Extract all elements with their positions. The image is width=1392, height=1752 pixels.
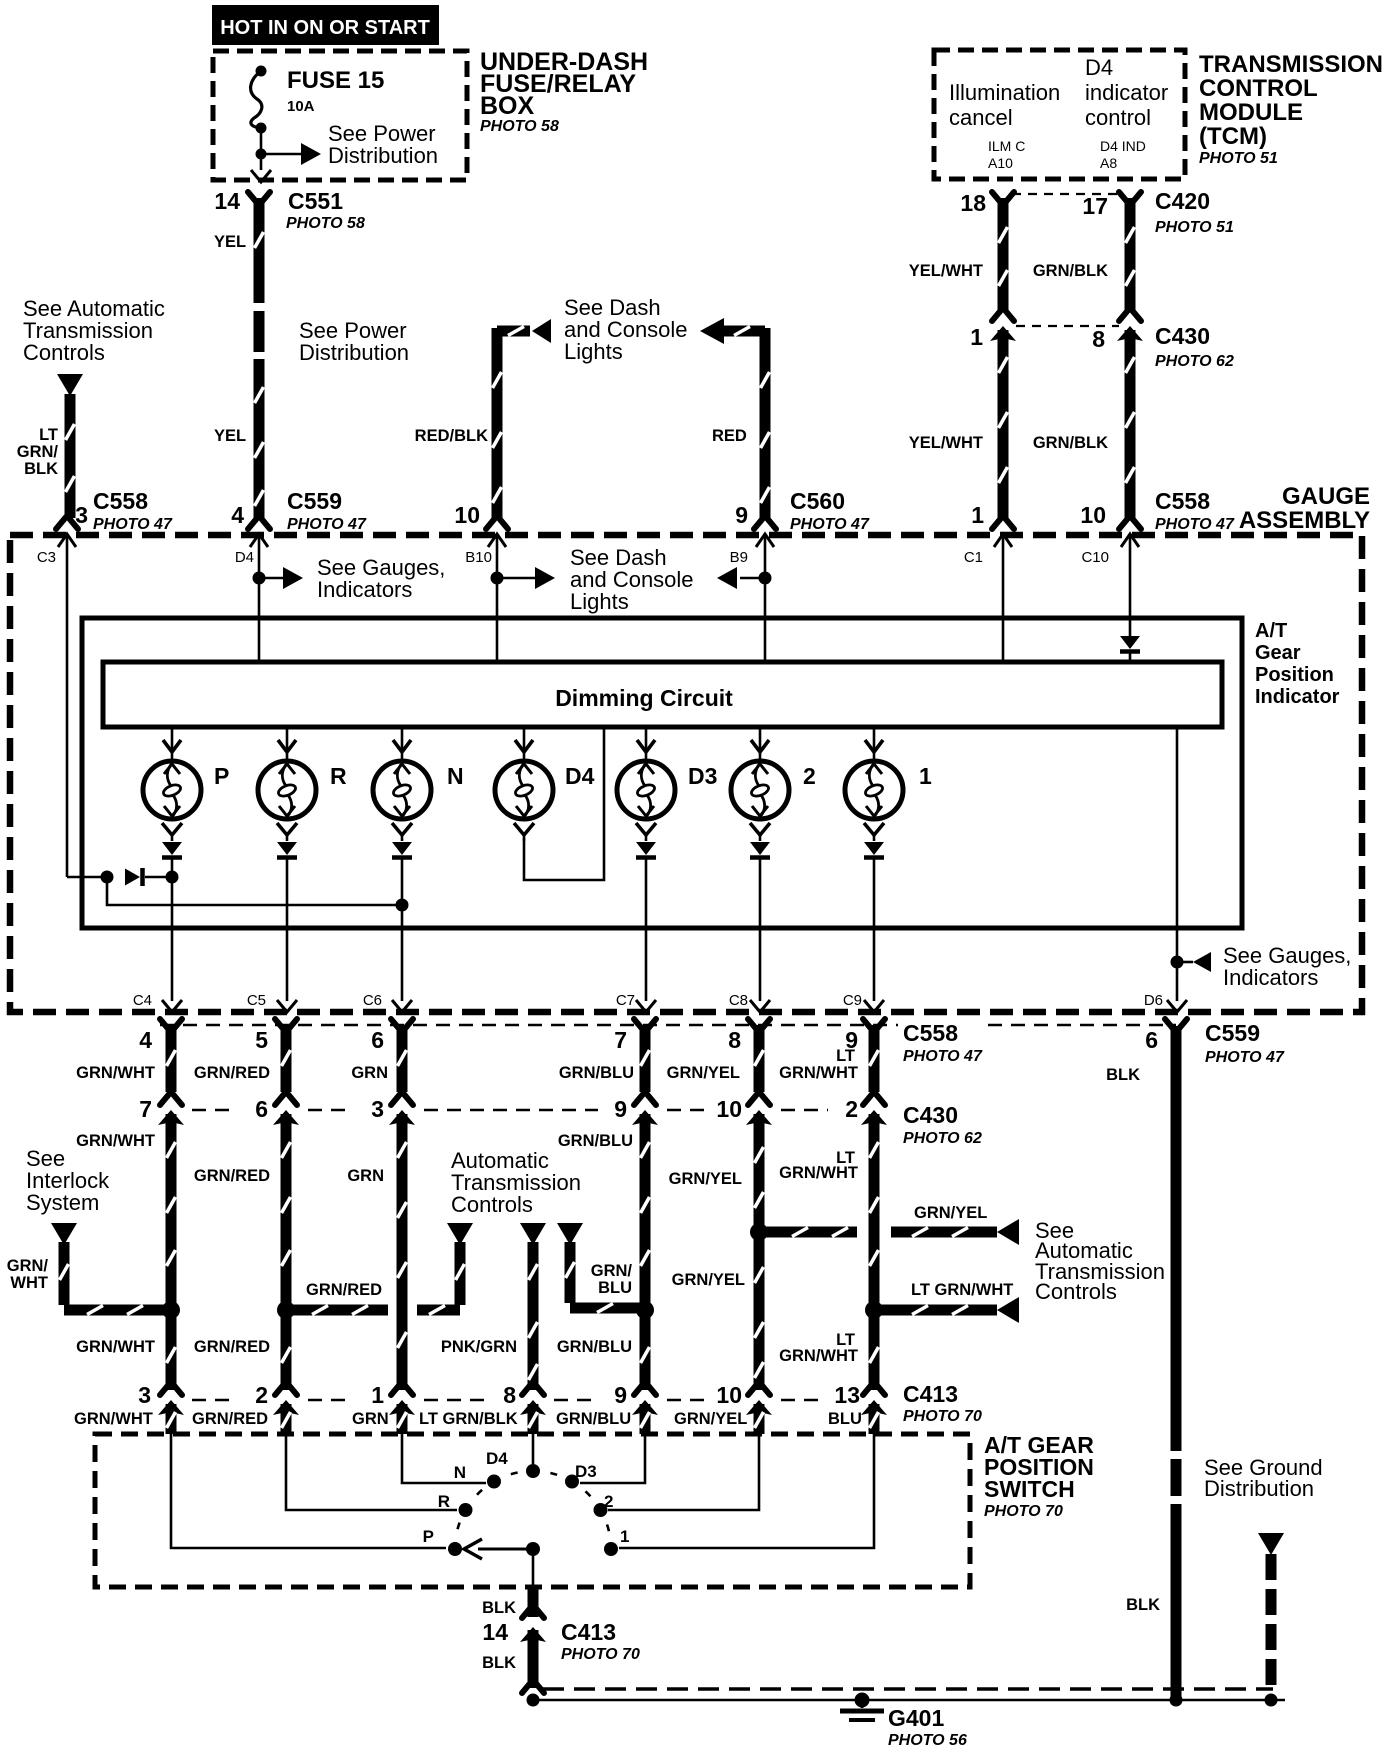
- svg-text:14: 14: [482, 1619, 508, 1645]
- wire: C1 entry down to dimming circuit: [1002, 534, 1005, 662]
- wire stub (ATC left): [455, 1242, 466, 1305]
- svg-text:WHT: WHT: [10, 1274, 48, 1292]
- gauge entry B10: connector flare+arrow: [486, 517, 496, 529]
- switch common node: [526, 1542, 540, 1556]
- svg-text:10A: 10A: [287, 98, 315, 115]
- svg-text:3: 3: [75, 502, 88, 528]
- wire GRN/BLU col (row2-row3): [640, 1114, 651, 1390]
- svg-text:PNK/GRN: PNK/GRN: [441, 1338, 517, 1356]
- connector C430 row pin 7: [160, 1093, 170, 1105]
- ground bus (dashed upper): [543, 1687, 1273, 1691]
- wire: B10 entry down to dimming circuit: [496, 534, 499, 662]
- wire GRN/RED col (row2-junction): [281, 1114, 292, 1305]
- arrow: see gauges indicators (right): [1193, 952, 1211, 972]
- wire segment row1-row2 at x=645: [640, 1025, 651, 1092]
- wire segment row1-row2 at x=286: [281, 1025, 292, 1092]
- wire GRN/YEL col (row2-row3): [754, 1114, 765, 1390]
- connector C558/C559 row pin 4 fork: [160, 1019, 170, 1031]
- svg-text:RED/BLK: RED/BLK: [415, 427, 488, 445]
- wire: switch pin 8 to D4 contact: [532, 1434, 535, 1464]
- svg-text:C430: C430: [1155, 323, 1210, 349]
- wire (dashed) to ground distribution: [1266, 1554, 1277, 1692]
- wire YEL/WHT (TCM 18 to C430 1): [998, 198, 1009, 312]
- svg-text:GRN: GRN: [351, 1064, 388, 1082]
- svg-text:BLK: BLK: [1126, 1596, 1160, 1614]
- connector C413 pin 2: [275, 1383, 285, 1395]
- wire YEL/WHT (C430 1 to gauge C1): [998, 330, 1009, 518]
- arrow: from automatic transmission controls: [57, 374, 83, 396]
- svg-text:C4: C4: [133, 992, 152, 1009]
- switch contact P: [448, 1542, 462, 1556]
- wire RED (to gauge B9): [760, 328, 771, 518]
- svg-text:MODULE: MODULE: [1199, 99, 1303, 126]
- svg-text:Controls: Controls: [1035, 1279, 1117, 1304]
- wire: bulb N output: [401, 858, 404, 1001]
- wire: branch to gauges indicators: [259, 577, 284, 580]
- svg-text:C430: C430: [903, 1102, 958, 1128]
- svg-text:D6: D6: [1144, 992, 1163, 1009]
- svg-text:8: 8: [1092, 326, 1105, 352]
- svg-text:C558: C558: [1155, 488, 1210, 514]
- svg-text:BOX: BOX: [480, 92, 535, 120]
- connector C420 pin 17 fork: [1119, 192, 1129, 204]
- indicator bulb 2: [759, 727, 762, 762]
- svg-text:4: 4: [231, 502, 244, 528]
- node: B10 branch: [491, 572, 504, 585]
- svg-text:GRN/: GRN/: [591, 1262, 633, 1280]
- svg-text:P: P: [423, 1527, 434, 1546]
- svg-text:control: control: [1085, 105, 1151, 130]
- connector C558/C559 row pin 8 fork: [748, 1019, 758, 1031]
- svg-text:PHOTO 70: PHOTO 70: [984, 1503, 1063, 1520]
- svg-text:Indicators: Indicators: [317, 577, 412, 602]
- svg-text:14: 14: [214, 188, 240, 214]
- connector C430 pin 1: [992, 309, 1002, 321]
- wire: C10 entry down: [1129, 534, 1132, 636]
- arrow: exit under bulb D3: [636, 1000, 656, 1012]
- wire BLK (switch to C413 pin 14): [528, 1585, 539, 1617]
- svg-text:2: 2: [845, 1096, 858, 1122]
- connector C413 dashed tie (row3): [192, 1399, 238, 1402]
- connector C558/C559 row pin 6 fork: [391, 1019, 401, 1031]
- svg-text:C420: C420: [1155, 188, 1210, 214]
- svg-text:C560: C560: [790, 488, 845, 514]
- svg-text:GRN/RED: GRN/RED: [194, 1338, 270, 1356]
- dimming circuit box: [103, 662, 1222, 727]
- node: fuse top: [256, 66, 267, 77]
- wire row3 stem at x=402: [397, 1404, 408, 1434]
- arrow: exit under bulb 2: [750, 1000, 770, 1012]
- wire: D4 bulb return to dimming circuit: [524, 727, 604, 880]
- svg-text:LT: LT: [39, 426, 58, 444]
- gauge entry D4: connector flare+arrow: [248, 517, 258, 529]
- wire: switch pin 9 to D3 contact: [580, 1434, 645, 1483]
- switch wiper (pointing at P): [478, 1548, 533, 1551]
- wire GRN/BLK (TCM 17 to C430 8): [1125, 198, 1136, 312]
- diode under bulb D3: [636, 842, 656, 855]
- connector C430 row pin 6: [275, 1093, 285, 1105]
- svg-text:GRN/BLU: GRN/BLU: [558, 1132, 633, 1150]
- wire: B9 entry down to dimming circuit: [764, 534, 767, 662]
- svg-text:R: R: [330, 763, 347, 789]
- svg-text:10: 10: [716, 1096, 742, 1122]
- svg-text:D4: D4: [1085, 55, 1113, 80]
- wire: see power distribution stub: [261, 153, 303, 156]
- gauge entry C1: connector flare+arrow: [992, 517, 1002, 529]
- arrow: from interlock system: [51, 1223, 77, 1245]
- wire: bulb R output: [286, 858, 289, 1001]
- arrow: red/blk to dash lights: [532, 319, 551, 343]
- wire row3 stem at x=286: [281, 1404, 292, 1434]
- node: D6 branch: [1171, 956, 1184, 969]
- wire row3 stem at x=171: [166, 1404, 177, 1434]
- wire BLK (C559-6 to ground bus): [1171, 1026, 1182, 1697]
- connector C413 pin 3: [160, 1383, 170, 1395]
- wire: switch pin 1 to N contact: [402, 1434, 486, 1483]
- svg-text:C6: C6: [363, 992, 382, 1009]
- svg-text:C9: C9: [843, 992, 862, 1009]
- junction on GRN/RED col: [277, 1301, 295, 1319]
- svg-text:C558: C558: [903, 1020, 958, 1046]
- diode under bulb N: [392, 842, 412, 855]
- wire: fuse to branch: [260, 128, 263, 170]
- A/T gear position switch box (dashed): [95, 1434, 970, 1587]
- svg-text:Distribution: Distribution: [328, 143, 438, 168]
- svg-text:A8: A8: [1100, 155, 1117, 171]
- svg-text:PHOTO 47: PHOTO 47: [903, 1048, 983, 1065]
- arrow: to power distribution: [301, 143, 321, 165]
- svg-text:2: 2: [255, 1382, 268, 1408]
- wire: node A down and right to N column: [107, 877, 402, 905]
- node: B9 branch: [759, 572, 772, 585]
- svg-text:LT: LT: [836, 1047, 855, 1065]
- wire PNK/GRN (ATC to switch pin 8): [528, 1242, 539, 1390]
- wire row3 stem at x=533: [528, 1404, 539, 1434]
- svg-text:HOT IN ON OR START: HOT IN ON OR START: [220, 17, 430, 39]
- svg-text:GRN/WHT: GRN/WHT: [76, 1132, 155, 1150]
- arrow: wire exits fuse box: [251, 170, 271, 182]
- svg-text:9: 9: [735, 502, 748, 528]
- svg-text:D3: D3: [575, 1462, 597, 1481]
- wire segment row1-row2 at x=171: [166, 1025, 177, 1092]
- connector C430 row pin 10: [748, 1093, 758, 1105]
- wire stub (ATC right to GRN/BLU col): [565, 1242, 576, 1303]
- svg-text:D4: D4: [486, 1449, 508, 1468]
- connector C413 pin 1: [391, 1383, 401, 1395]
- arrow: exit under bulb P: [162, 1000, 182, 1012]
- wire GRN col (row2-row3): [397, 1114, 408, 1390]
- junction: interlock to GRN/WHT col: [162, 1301, 180, 1319]
- svg-text:A10: A10: [988, 155, 1013, 171]
- indicator bulb P: [171, 727, 174, 762]
- svg-text:YEL: YEL: [214, 233, 246, 251]
- svg-text:2: 2: [604, 1492, 613, 1511]
- svg-text:GRN/WHT: GRN/WHT: [779, 1164, 858, 1182]
- gauge entry C10: connector flare+arrow: [1119, 517, 1129, 529]
- svg-text:Distribution: Distribution: [299, 340, 409, 365]
- svg-text:BLK: BLK: [1106, 1066, 1140, 1084]
- svg-text:3: 3: [138, 1382, 151, 1408]
- A/T gear position indicator box: [82, 618, 1242, 928]
- svg-text:18: 18: [960, 190, 986, 216]
- node on P output: [166, 871, 179, 884]
- svg-text:R: R: [438, 1492, 450, 1511]
- svg-text:C413: C413: [903, 1381, 958, 1407]
- svg-text:GRN/BLU: GRN/BLU: [559, 1064, 634, 1082]
- node: ground distribution to bus: [1265, 1694, 1278, 1707]
- junction on GRN/BLU col: [636, 1301, 654, 1319]
- svg-text:1: 1: [919, 763, 932, 789]
- wire RED/BLK (to gauge B10): [492, 328, 503, 518]
- node A (left of diode): [101, 871, 114, 884]
- svg-text:GRN/YEL: GRN/YEL: [667, 1064, 740, 1082]
- svg-text:10: 10: [1080, 502, 1106, 528]
- svg-text:1: 1: [371, 1382, 384, 1408]
- svg-text:3: 3: [371, 1096, 384, 1122]
- wire: bulb P output: [171, 858, 174, 1001]
- svg-text:GRN/WHT: GRN/WHT: [779, 1064, 858, 1082]
- svg-text:ILM C: ILM C: [988, 138, 1025, 154]
- svg-text:17: 17: [1082, 193, 1108, 219]
- gauge entry C3: connector flare+arrow: [56, 517, 66, 529]
- svg-text:4: 4: [139, 1027, 152, 1053]
- svg-text:(TCM): (TCM): [1199, 123, 1267, 150]
- svg-text:indicator: indicator: [1085, 80, 1168, 105]
- wire row3 stem at x=874: [869, 1404, 880, 1434]
- wire: diode to P column: [145, 876, 166, 879]
- node: power-distribution branch: [256, 149, 267, 160]
- wire: dimming circuit to D6 exit: [1176, 727, 1179, 1001]
- svg-text:6: 6: [1145, 1027, 1158, 1053]
- connector C430 row pin 3: [391, 1093, 401, 1105]
- wire GRN/WHT col (row2-junction): [166, 1114, 177, 1305]
- wire: switch pin 2 to R contact: [286, 1434, 457, 1510]
- svg-text:PHOTO 62: PHOTO 62: [903, 1130, 982, 1147]
- svg-text:GRN/YEL: GRN/YEL: [672, 1271, 745, 1289]
- svg-text:PHOTO 47: PHOTO 47: [287, 516, 367, 533]
- svg-text:LT GRN/BLK: LT GRN/BLK: [419, 1410, 518, 1428]
- connector C558/C559 row pin 7 fork: [634, 1019, 644, 1031]
- svg-text:GRN/: GRN/: [17, 443, 59, 461]
- svg-text:Controls: Controls: [23, 340, 105, 365]
- svg-text:B9: B9: [730, 549, 748, 566]
- svg-text:Illumination: Illumination: [949, 80, 1060, 105]
- wire segment row1-row2 at x=874: [869, 1025, 880, 1092]
- svg-text:6: 6: [371, 1027, 384, 1053]
- svg-text:5: 5: [255, 1027, 268, 1053]
- svg-text:LT GRN/WHT: LT GRN/WHT: [911, 1281, 1013, 1299]
- svg-text:GRN/BLK: GRN/BLK: [1033, 434, 1108, 452]
- gauge assembly box (dashed): [10, 535, 1362, 1012]
- svg-text:YEL/WHT: YEL/WHT: [909, 262, 983, 280]
- svg-text:PHOTO 47: PHOTO 47: [790, 516, 870, 533]
- switch contact 2: [594, 1503, 608, 1517]
- switch contact N: [487, 1475, 501, 1489]
- svg-text:C558: C558: [93, 488, 148, 514]
- connector C430 pin 8: [1119, 309, 1129, 321]
- svg-text:GRN/BLK: GRN/BLK: [1033, 262, 1108, 280]
- wire GRN/WHT (interlock feed): [59, 1242, 70, 1305]
- node: fuse bottom: [256, 123, 267, 134]
- arrow: exit under bulb N: [392, 1000, 412, 1012]
- wire: switch pin 13 to 1 contact: [619, 1434, 874, 1548]
- svg-text:BLK: BLK: [482, 1599, 516, 1617]
- svg-text:8: 8: [503, 1382, 516, 1408]
- arrow: to dash and console lights: [535, 567, 555, 589]
- svg-text:BLK: BLK: [24, 460, 58, 478]
- wire LT GRN/BLK (to gauge C558 pin 3): [65, 394, 76, 518]
- svg-text:D4 IND: D4 IND: [1100, 138, 1146, 154]
- svg-text:B10: B10: [465, 549, 492, 566]
- switch contact R: [459, 1503, 473, 1517]
- svg-text:Controls: Controls: [451, 1192, 533, 1217]
- svg-text:G401: G401: [888, 1705, 944, 1731]
- svg-text:Distribution: Distribution: [1204, 1476, 1314, 1501]
- node: BLK to ground bus: [527, 1694, 540, 1707]
- svg-text:GAUGE: GAUGE: [1282, 483, 1370, 510]
- svg-text:Indicator: Indicator: [1255, 686, 1340, 708]
- ground G401 symbol: [855, 1693, 870, 1708]
- svg-text:PHOTO 70: PHOTO 70: [561, 1646, 640, 1663]
- svg-text:PHOTO 47: PHOTO 47: [93, 516, 173, 533]
- wire segment row1-row2 at x=402: [397, 1025, 408, 1092]
- svg-text:PHOTO 51: PHOTO 51: [1199, 150, 1278, 167]
- wire: C10 diode to dimming circuit: [1129, 652, 1132, 662]
- arrow: D6 exit: [1167, 1000, 1187, 1012]
- wire: B10 branch stub: [497, 577, 536, 580]
- svg-text:C559: C559: [1205, 1020, 1260, 1046]
- svg-text:1: 1: [970, 324, 983, 350]
- diode under bulb 1: [864, 842, 884, 855]
- svg-text:PHOTO 58: PHOTO 58: [286, 215, 365, 232]
- svg-text:PHOTO 62: PHOTO 62: [1155, 353, 1234, 370]
- transmission control module box (dashed): [934, 50, 1185, 179]
- svg-text:RED: RED: [712, 427, 747, 445]
- svg-text:CONTROL: CONTROL: [1199, 75, 1318, 102]
- svg-text:7: 7: [614, 1027, 627, 1053]
- diode (P bulb hold): [125, 869, 140, 886]
- gauge entry B9: connector flare+arrow: [754, 517, 764, 529]
- node: right BLK to ground bus: [1170, 1694, 1183, 1707]
- switch contact arc (dashed): [455, 1471, 611, 1549]
- wire row3 stem at x=645: [640, 1404, 651, 1434]
- svg-text:SWITCH: SWITCH: [984, 1476, 1075, 1502]
- arrow: from dash and console lights: [717, 567, 737, 589]
- wire: D6 branch stub: [1177, 961, 1193, 964]
- switch contact D3: [565, 1475, 579, 1489]
- svg-text:GRN/RED: GRN/RED: [194, 1167, 270, 1185]
- svg-text:C559: C559: [287, 488, 342, 514]
- switch contact D4: [526, 1464, 540, 1478]
- arrow: red to dash lights: [700, 318, 724, 344]
- arrow: ATC into PNK/GRN wire: [520, 1223, 546, 1245]
- svg-text:GRN: GRN: [347, 1167, 384, 1185]
- wire GRN/YEL stub (crossing to ATC): [759, 1227, 857, 1238]
- svg-text:GRN/WHT: GRN/WHT: [76, 1338, 155, 1356]
- connector C430 dashed tie (row2): [192, 1109, 238, 1112]
- wire: C3 to diode node: [67, 876, 101, 879]
- wire row3 stem at x=759: [754, 1404, 765, 1434]
- connector C420 pin 18 fork: [992, 192, 1002, 204]
- svg-text:System: System: [26, 1190, 99, 1215]
- svg-text:P: P: [214, 763, 229, 789]
- svg-text:D3: D3: [688, 763, 717, 789]
- wire: D4 entry down to dimming circuit: [258, 534, 261, 662]
- svg-text:9: 9: [614, 1382, 627, 1408]
- wire: bulb 1 output: [873, 858, 876, 1001]
- svg-text:GRN/BLU: GRN/BLU: [557, 1338, 632, 1356]
- connector C558/C559 row pin 9 fork: [863, 1019, 873, 1031]
- svg-text:10: 10: [454, 502, 480, 528]
- svg-text:C10: C10: [1081, 549, 1109, 566]
- connector C558/C559 row pin 5 fork: [275, 1019, 285, 1031]
- svg-text:GRN/YEL: GRN/YEL: [914, 1204, 987, 1222]
- arrow: see gauges indicators: [283, 567, 303, 589]
- diode under bulb 2: [750, 842, 770, 855]
- svg-text:GRN/RED: GRN/RED: [306, 1281, 382, 1299]
- svg-text:10: 10: [716, 1382, 742, 1408]
- svg-text:YEL: YEL: [214, 427, 246, 445]
- node: D4 branch: [253, 572, 266, 585]
- svg-text:FUSE 15: FUSE 15: [287, 67, 384, 94]
- connector C430 row pin 9: [634, 1093, 644, 1105]
- node on N output: [396, 899, 409, 912]
- svg-text:C1: C1: [964, 549, 983, 566]
- arrow: to ground distribution: [1258, 1533, 1284, 1555]
- junction on GRN/YEL col: [750, 1223, 768, 1241]
- connector C413 pin 13: [863, 1383, 873, 1395]
- svg-text:C3: C3: [37, 549, 56, 566]
- svg-text:BLK: BLK: [482, 1654, 516, 1672]
- svg-text:7: 7: [139, 1096, 152, 1122]
- svg-text:GRN/YEL: GRN/YEL: [669, 1170, 742, 1188]
- svg-text:9: 9: [614, 1096, 627, 1122]
- svg-text:BLU: BLU: [828, 1410, 862, 1428]
- wire: switch common down: [532, 1549, 535, 1587]
- wire: switch pin 3 to P contact: [171, 1434, 446, 1548]
- wire GRN/RED stub (to automatic transmission controls): [286, 1305, 388, 1316]
- svg-text:2: 2: [803, 763, 816, 789]
- indicator bulb R: [286, 727, 289, 762]
- svg-text:ASSEMBLY: ASSEMBLY: [1239, 507, 1370, 534]
- connector C558/C559 row pin 6 fork: [1165, 1019, 1175, 1031]
- svg-text:A/T: A/T: [1255, 620, 1287, 642]
- svg-text:C7: C7: [616, 992, 635, 1009]
- wire: C3 entry down: [66, 534, 69, 877]
- svg-text:D4: D4: [235, 549, 254, 566]
- svg-text:TRANSMISSION: TRANSMISSION: [1199, 51, 1383, 78]
- connector C413 pin 10: [748, 1383, 758, 1395]
- svg-text:PHOTO 58: PHOTO 58: [480, 118, 559, 135]
- wire: bulb 2 output: [759, 858, 762, 1001]
- svg-text:8: 8: [728, 1027, 741, 1053]
- arrow: exit under bulb 1: [864, 1000, 884, 1012]
- svg-text:Lights: Lights: [564, 339, 623, 364]
- connector C551 pin 14 fork: [248, 192, 258, 204]
- wire: switch pin 10 to 2 contact: [608, 1434, 759, 1510]
- connector row C558 dashed tie: [160, 1024, 898, 1027]
- arrow: GRN/YEL to ATC: [997, 1219, 1019, 1245]
- wire GRN/RED col (junction-row3): [281, 1310, 292, 1390]
- junction on LT GRN/WHT col: [865, 1301, 883, 1319]
- svg-text:N: N: [447, 763, 464, 789]
- diode on C10 line: [1120, 636, 1140, 649]
- svg-text:PHOTO 47: PHOTO 47: [1205, 1049, 1285, 1066]
- under-dash fuse/relay box (dashed): [213, 51, 467, 180]
- svg-text:D4: D4: [565, 763, 595, 789]
- svg-text:1: 1: [971, 502, 984, 528]
- svg-text:YEL/WHT: YEL/WHT: [909, 434, 983, 452]
